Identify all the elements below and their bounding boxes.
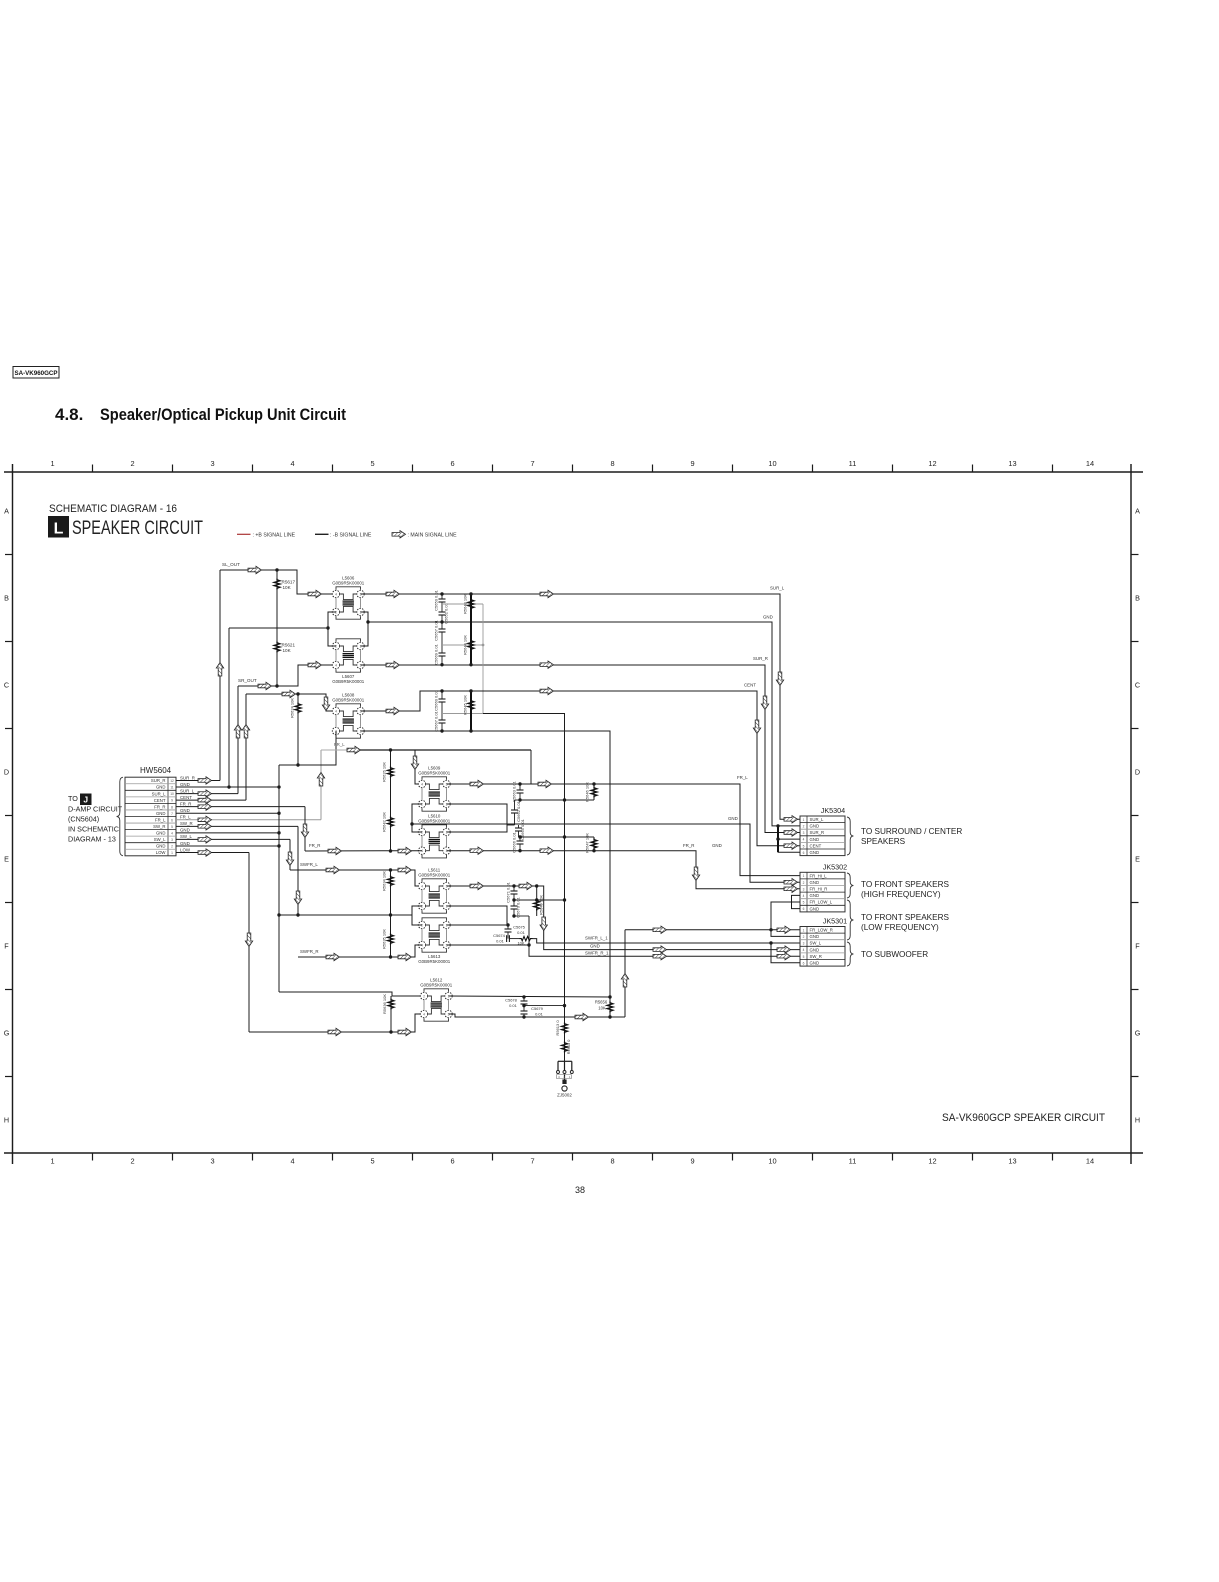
svg-text:GND: GND	[810, 850, 820, 855]
svg-text:TO SUBWOOFER: TO SUBWOOFER	[861, 950, 928, 959]
svg-text:3: 3	[803, 831, 805, 835]
wire stage4 top out to GND row	[447, 886, 801, 950]
svg-text:R5626 10K: R5626 10K	[382, 762, 387, 782]
capacitor C5667 0.01	[441, 714, 443, 721]
svg-text:GND: GND	[180, 841, 190, 846]
svg-text:12: 12	[170, 779, 174, 783]
svg-text:GND: GND	[156, 811, 166, 816]
arrow on FR_R drop	[301, 824, 308, 838]
svg-text:G0B9R5K00001: G0B9R5K00001	[332, 581, 365, 586]
svg-text:G0B9R5K00001: G0B9R5K00001	[418, 771, 451, 776]
svg-text:C5678: C5678	[505, 998, 518, 1003]
arrow on GND drop	[540, 917, 547, 931]
svg-text:C: C	[1135, 681, 1140, 690]
node L5612 mid to bus	[524, 1005, 565, 1007]
svg-text:2: 2	[423, 994, 425, 998]
svg-text:C5669 0.01: C5669 0.01	[434, 643, 439, 664]
svg-text:7: 7	[171, 812, 173, 816]
brace JK5302 high	[847, 873, 853, 898]
wire HW5604 pin 7	[176, 812, 279, 814]
svg-text:R5621: R5621	[282, 643, 296, 648]
svg-text:GND: GND	[810, 893, 820, 898]
svg-text:TO: TO	[68, 794, 78, 803]
svg-text:(LOW FREQUENCY): (LOW FREQUENCY)	[861, 923, 939, 932]
brace JK5304	[847, 817, 853, 855]
legend +B signal line	[237, 533, 251, 535]
inductor L5612 G0B9R5K00001	[424, 989, 449, 992]
svg-text:4: 4	[423, 1012, 425, 1016]
svg-text:FR_R: FR_R	[683, 843, 694, 848]
svg-text:CENT: CENT	[810, 843, 822, 848]
svg-text:R5656: R5656	[595, 1000, 608, 1005]
svg-text:C5660 0.01: C5660 0.01	[434, 689, 439, 710]
resistor ladder R5634 10K	[390, 870, 392, 957]
mid rail wire	[279, 914, 412, 916]
svg-text:12: 12	[928, 459, 936, 468]
arrow into JK5302 pin2	[784, 879, 798, 886]
svg-text:7: 7	[530, 459, 534, 468]
resistor 10K horizontal after C5674	[520, 936, 533, 940]
svg-text:C5651 0.01: C5651 0.01	[444, 602, 449, 623]
svg-text:4.8.: 4.8.	[55, 405, 83, 424]
svg-text:GND: GND	[180, 808, 190, 813]
inductor L5607 G0B9R5K00001	[336, 639, 361, 642]
svg-text:GND: GND	[810, 934, 820, 939]
svg-text:GND: GND	[810, 961, 820, 966]
svg-text:C5675: C5675	[513, 925, 526, 930]
wire stage3 left mid jog	[412, 804, 422, 832]
wire stage2 bottom rail to vertical bus	[361, 731, 611, 997]
gray vertical node bus	[482, 604, 484, 714]
arrow on CENT riser	[242, 725, 249, 739]
svg-text:C5667 0.01: C5667 0.01	[434, 710, 439, 731]
wire CENT net to JK5304 pin5	[361, 691, 801, 846]
svg-text:G0B9R5K00001: G0B9R5K00001	[418, 959, 451, 964]
svg-text:G0B9R5K00001: G0B9R5K00001	[418, 873, 451, 878]
svg-text:9: 9	[171, 799, 173, 803]
svg-text:FR_L: FR_L	[180, 815, 191, 820]
inductor L5610 G0B9R5K00001	[422, 825, 447, 828]
svg-text:(CN5604): (CN5604)	[68, 815, 99, 824]
inductor L5613 G0B9R5K00001	[422, 918, 447, 921]
resistor R5635 10K	[388, 934, 394, 945]
brace JK5301 subwoofer	[847, 942, 853, 966]
svg-text:SUR_R: SUR_R	[810, 830, 825, 835]
svg-text:FR_R: FR_R	[154, 804, 165, 809]
svg-text:: -B SIGNAL LINE: : -B SIGNAL LINE	[330, 532, 372, 538]
svg-text:SW_R: SW_R	[810, 954, 822, 959]
svg-text:JK5302: JK5302	[823, 863, 847, 872]
wire HW5604 pin 9	[176, 799, 246, 801]
svg-text:R5647 10K: R5647 10K	[585, 833, 590, 853]
wire HW5604 pin 6	[176, 819, 321, 821]
svg-text:G: G	[1135, 1029, 1141, 1038]
svg-text:38: 38	[575, 1185, 585, 1195]
wire SWFR_R input	[298, 945, 422, 957]
resistor R5617 10K	[276, 570, 278, 686]
svg-text:GND: GND	[156, 844, 166, 849]
resistor R5644 10K	[468, 640, 474, 651]
svg-text:JK5304: JK5304	[821, 806, 845, 815]
legend -B signal line	[315, 533, 329, 535]
wire stage4 left mid jog	[412, 906, 422, 925]
wire GND net to JK5304 pin2	[368, 622, 800, 826]
resistor R5642 10K	[388, 817, 394, 828]
svg-text:GND: GND	[810, 906, 820, 911]
resistor R5643 10K on heavy rail	[470, 594, 472, 665]
capacitor C5666 0.01	[519, 837, 521, 841]
svg-text:0.01: 0.01	[496, 939, 505, 944]
svg-text:6: 6	[803, 961, 805, 965]
FR_L join to top rail	[530, 750, 532, 784]
svg-text:10K: 10K	[598, 1006, 606, 1011]
svg-text:R5645 10K: R5645 10K	[463, 695, 468, 715]
svg-text:: +B SIGNAL LINE: : +B SIGNAL LINE	[253, 532, 296, 538]
svg-text:HW5604: HW5604	[140, 766, 172, 775]
svg-text:H: H	[1135, 1116, 1140, 1125]
svg-text:10: 10	[768, 459, 776, 468]
svg-text:4: 4	[335, 663, 337, 667]
svg-text:LOW: LOW	[156, 850, 167, 855]
resistor R5645 10K on heavy rail	[470, 691, 472, 731]
svg-text:1: 1	[803, 818, 805, 822]
svg-text:SUR_L: SUR_L	[152, 791, 166, 796]
svg-text:SA-VK960GCP SPEAKER CIRCUIT: SA-VK960GCP SPEAKER CIRCUIT	[942, 1112, 1105, 1124]
wire JK5301 pin6 jumper	[771, 943, 800, 963]
resistor R5647 10K	[593, 837, 595, 851]
capacitor C5657 0.01	[441, 622, 443, 629]
wire FR_LOW_R to JK5301 pin1	[625, 929, 800, 931]
svg-text:DIAGRAM - 13: DIAGRAM - 13	[68, 835, 116, 844]
svg-text:12: 12	[928, 1157, 936, 1166]
model number badge SA-VK960GCP	[13, 367, 59, 379]
svg-text:R5611 0: R5611 0	[566, 1039, 571, 1055]
svg-text:A: A	[4, 507, 9, 516]
svg-text:GND: GND	[590, 944, 600, 949]
wire HW5604 pin 4	[176, 832, 279, 834]
svg-text:1: 1	[171, 851, 173, 855]
svg-text:9: 9	[690, 459, 694, 468]
wire LOW to L5612 pin4	[249, 1014, 424, 1032]
svg-text:SW_R: SW_R	[180, 821, 193, 826]
wire JK5302 pin4-pin6 jumper	[792, 895, 801, 908]
svg-text:4: 4	[335, 592, 337, 596]
wire HW5604 pin 5	[176, 825, 298, 827]
svg-text:C5657 0.01: C5657 0.01	[434, 619, 439, 640]
wire FR_L net to JK5302 pin1	[447, 784, 801, 876]
capacitor C5670 0.01	[513, 900, 515, 906]
svg-text:2: 2	[130, 459, 134, 468]
svg-text:GND: GND	[156, 831, 166, 836]
svg-text:1: 1	[803, 874, 805, 878]
arrow into L5607 pin4	[308, 661, 322, 668]
svg-text:3: 3	[210, 459, 214, 468]
brace front low	[847, 900, 853, 940]
svg-text:11: 11	[849, 1157, 857, 1166]
wire GND bus to L5612 pin2	[279, 992, 424, 996]
svg-text:FR_LOW_L: FR_LOW_L	[810, 900, 833, 905]
svg-text:TO FRONT SPEAKERS: TO FRONT SPEAKERS	[861, 913, 949, 922]
capacitor C5669 0.01	[441, 645, 443, 653]
svg-text:9: 9	[690, 1157, 694, 1166]
svg-text:G0B9R5K00001: G0B9R5K00001	[332, 698, 365, 703]
svg-text:R5635 10K: R5635 10K	[382, 929, 387, 949]
wire HW5604 pin 12	[176, 779, 220, 781]
wire FR_R input to L5610 pin4	[305, 850, 422, 852]
arrow on SUR_L riser	[234, 725, 241, 739]
arrow on SW_R drop	[294, 891, 301, 905]
capacitor C5663 0.01	[519, 784, 521, 790]
arrow on LOW drop	[245, 933, 252, 947]
svg-text:G0B9R5K00001: G0B9R5K00001	[418, 819, 451, 824]
svg-text:13: 13	[1008, 1157, 1016, 1166]
wire HW5604 pin 8	[176, 806, 305, 808]
capacitor C5679 0.01	[523, 1006, 525, 1011]
wire SWFR_L input	[290, 870, 422, 886]
svg-text:FR_L: FR_L	[155, 817, 166, 822]
svg-text:FR_HI_R: FR_HI_R	[810, 887, 828, 892]
svg-text:R5646 10K: R5646 10K	[585, 782, 590, 802]
svg-text:TO SURROUND / CENTER: TO SURROUND / CENTER	[861, 827, 962, 836]
svg-text:C5666 0.01: C5666 0.01	[512, 831, 517, 852]
svg-text:11: 11	[849, 459, 857, 468]
wire SW_L drop to SWFR_L	[289, 839, 291, 870]
arrow into L5606 pin4	[308, 590, 322, 597]
svg-text:6: 6	[171, 818, 173, 822]
inductor L5609 G0B9R5K00001	[422, 777, 447, 780]
arrow into JK5304 pin5	[784, 842, 798, 849]
svg-text:3: 3	[171, 838, 173, 842]
resistor R5636 10K	[390, 996, 392, 1032]
svg-text:SWFR_L: SWFR_L	[300, 862, 318, 867]
svg-text:SPEAKERS: SPEAKERS	[861, 837, 906, 846]
svg-text:2: 2	[803, 935, 805, 939]
node stage4b link	[514, 915, 529, 917]
svg-text:GND: GND	[712, 843, 722, 848]
svg-text:FR_HI_L: FR_HI_L	[810, 873, 828, 878]
svg-text:C5663 0.01: C5663 0.01	[512, 780, 517, 801]
svg-text:2: 2	[171, 845, 173, 849]
svg-text:8: 8	[610, 1157, 614, 1166]
arrow into JK5304 pin1	[784, 816, 798, 823]
svg-text:1: 1	[50, 459, 54, 468]
svg-text:ZJ5002: ZJ5002	[557, 1093, 572, 1098]
wire CENT riser	[245, 694, 247, 800]
node stage2 gray link	[442, 713, 483, 715]
wire GND net to JK5302 pin2	[412, 824, 800, 882]
svg-text:F: F	[1135, 942, 1140, 951]
svg-text:SUR_R: SUR_R	[151, 778, 166, 783]
svg-text:R5644 10K: R5644 10K	[463, 635, 468, 655]
svg-text:R5634 10K: R5634 10K	[382, 871, 387, 891]
arrow on SUR_L drop	[776, 672, 783, 686]
capacitor C5662 0.01	[514, 800, 516, 810]
wire stage3 right mid jog	[447, 804, 508, 832]
svg-text:14: 14	[1086, 459, 1094, 468]
svg-text:E: E	[4, 855, 9, 864]
svg-text:SW_L: SW_L	[810, 941, 822, 946]
resistor R5656 10K	[609, 997, 611, 1017]
svg-text:LOW: LOW	[180, 847, 191, 852]
svg-text:D: D	[1135, 768, 1140, 777]
node stage3b to bus	[519, 836, 595, 838]
svg-text:R5642 10K: R5642 10K	[382, 812, 387, 832]
node bus to lower bus	[483, 714, 565, 1006]
svg-text:10K: 10K	[283, 585, 292, 590]
wire stage1 mid input GND	[229, 627, 328, 629]
node stage1a gray link	[442, 603, 483, 605]
wire SL_OUT	[220, 570, 336, 594]
wire HW5604 pin 1	[176, 852, 249, 854]
svg-text:2: 2	[803, 825, 805, 829]
svg-text:H: H	[4, 1116, 9, 1125]
capacitor C5675 0.01 (stage4)	[507, 925, 509, 929]
svg-text:G0B9R5K00001: G0B9R5K00001	[420, 983, 453, 988]
wire stage1 right mid jog	[361, 612, 369, 646]
svg-text:C5671 0.01: C5671 0.01	[506, 881, 511, 902]
svg-text:0.01: 0.01	[535, 1012, 544, 1017]
resistor R5649 10K	[536, 886, 538, 916]
wire riser to FR_LOW_R	[624, 930, 626, 1017]
wire stage4 right mid jog	[447, 906, 508, 925]
resistor R5611 0	[562, 1042, 568, 1053]
svg-text:C5679: C5679	[531, 1006, 544, 1011]
wire HW5604 pin 3	[176, 838, 290, 840]
svg-text:FR_L: FR_L	[737, 775, 748, 780]
svg-text:D-AMP CIRCUIT: D-AMP CIRCUIT	[68, 805, 123, 814]
svg-text:JK5301: JK5301	[823, 917, 847, 926]
svg-text:SUR_L: SUR_L	[810, 817, 824, 822]
wire stage1 left mid jog	[328, 612, 336, 646]
link C5662 bottom to jog	[507, 824, 515, 826]
wire L5612 pin1 rail	[449, 996, 611, 997]
svg-text:R5613 0: R5613 0	[555, 1020, 560, 1036]
svg-text:R5649 10K: R5649 10K	[539, 895, 544, 915]
brace for HW5604	[117, 777, 123, 856]
svg-text:8: 8	[610, 459, 614, 468]
svg-text:SUR_R: SUR_R	[753, 656, 768, 661]
svg-text:1: 1	[803, 928, 805, 932]
svg-text:4: 4	[290, 459, 294, 468]
svg-text:6: 6	[803, 851, 805, 855]
svg-text:SWFR_R_1: SWFR_R_1	[585, 950, 609, 955]
capacitor C5651 0.01	[441, 604, 443, 612]
svg-text:10K: 10K	[283, 648, 292, 653]
svg-text:SW_L: SW_L	[154, 837, 166, 842]
svg-text:FR_R: FR_R	[180, 801, 191, 806]
wire SUR_L riser to SR_OUT	[237, 686, 239, 794]
svg-text:3: 3	[803, 942, 805, 946]
arrow on SUR_R drop	[761, 696, 768, 710]
svg-text:GND: GND	[810, 837, 820, 842]
svg-text:13: 13	[1008, 459, 1016, 468]
svg-text:SL_OUT: SL_OUT	[222, 562, 240, 567]
svg-text:SR_OUT: SR_OUT	[238, 678, 257, 683]
wire GND riser	[228, 628, 230, 787]
svg-text:GND: GND	[810, 880, 820, 885]
wire CENT input to L5608	[246, 694, 336, 711]
wire FR_L into L5609	[415, 750, 422, 784]
svg-text:D: D	[4, 768, 9, 777]
svg-text:4: 4	[803, 894, 805, 898]
arrows on GND row to JK5301 pin4	[653, 946, 667, 953]
wire HW5604 pin 10	[176, 793, 238, 795]
svg-text:3: 3	[803, 887, 805, 891]
svg-text:4: 4	[421, 782, 423, 786]
svg-text:6: 6	[803, 907, 805, 911]
capacitor C5665 0.01	[518, 825, 520, 828]
svg-text:Speaker/Optical Pickup Unit Ci: Speaker/Optical Pickup Unit Circuit	[100, 406, 346, 424]
svg-text:(HIGH FREQUENCY): (HIGH FREQUENCY)	[861, 890, 941, 899]
arrow on SUR_R riser	[216, 663, 223, 677]
svg-text:4: 4	[171, 831, 173, 835]
svg-text:GND: GND	[180, 828, 190, 833]
svg-text:SUR_R: SUR_R	[180, 775, 195, 780]
wire FR_R drop	[304, 807, 306, 851]
svg-text:GND: GND	[728, 816, 738, 821]
arrow into JK5302 pin3	[784, 885, 798, 892]
svg-text:1: 1	[50, 1157, 54, 1166]
svg-text:C5674: C5674	[493, 933, 506, 938]
wire SUR_R riser to SL_OUT	[219, 570, 221, 780]
svg-text:2: 2	[803, 881, 805, 885]
svg-text:FR_R: FR_R	[309, 843, 320, 848]
svg-text:4: 4	[803, 948, 805, 952]
svg-text:2: 2	[130, 1157, 134, 1166]
resistor R5646 10K	[593, 784, 595, 800]
arrow on SW_L drop	[286, 852, 293, 866]
svg-text:SW_R: SW_R	[153, 824, 165, 829]
wire HW5604 pin 2	[176, 845, 279, 847]
wire LOW drop	[248, 853, 250, 1032]
svg-text:E: E	[1135, 855, 1140, 864]
legend main signal line	[392, 531, 406, 538]
svg-text:10: 10	[170, 792, 174, 796]
wire SUR_L net	[361, 594, 801, 819]
svg-text:CENT: CENT	[154, 798, 166, 803]
svg-text:R5617: R5617	[282, 580, 296, 585]
node stage1b gray link	[442, 644, 483, 646]
connector ZJ5002	[558, 1060, 572, 1062]
svg-text:6: 6	[450, 1157, 454, 1166]
svg-text:B: B	[1135, 594, 1140, 603]
svg-text:SA-VK960GCP: SA-VK960GCP	[15, 370, 58, 377]
svg-text:0.01: 0.01	[509, 1003, 518, 1008]
svg-text:: MAIN SIGNAL LINE: : MAIN SIGNAL LINE	[408, 532, 458, 538]
svg-text:B: B	[4, 594, 9, 603]
wire HW5604 pin 11	[176, 786, 279, 788]
wire FR_LOW_L link	[771, 902, 800, 936]
arrow into JK5304 pin3	[784, 829, 798, 836]
arrow on L5608 input drop	[322, 697, 329, 711]
svg-text:6: 6	[450, 459, 454, 468]
wire L5612 pin3 out rail	[449, 1014, 626, 1017]
resistor R5613 0	[564, 1006, 566, 1062]
svg-text:CENT: CENT	[744, 683, 756, 688]
svg-text:L: L	[54, 521, 64, 538]
wire SWFR_L_1 out	[533, 939, 801, 943]
svg-text:4: 4	[290, 1157, 294, 1166]
svg-text:5: 5	[171, 825, 173, 829]
svg-text:SUR_L: SUR_L	[770, 586, 785, 591]
node stage4a to bus	[514, 899, 565, 901]
junction at SW_L feed	[769, 941, 772, 944]
svg-text:4: 4	[803, 838, 805, 842]
svg-text:C5662 0.01: C5662 0.01	[516, 800, 521, 821]
wire SR_OUT	[238, 665, 336, 686]
svg-text:R5643 10K: R5643 10K	[463, 594, 468, 614]
resistor ladder R5626 10K	[390, 750, 392, 851]
